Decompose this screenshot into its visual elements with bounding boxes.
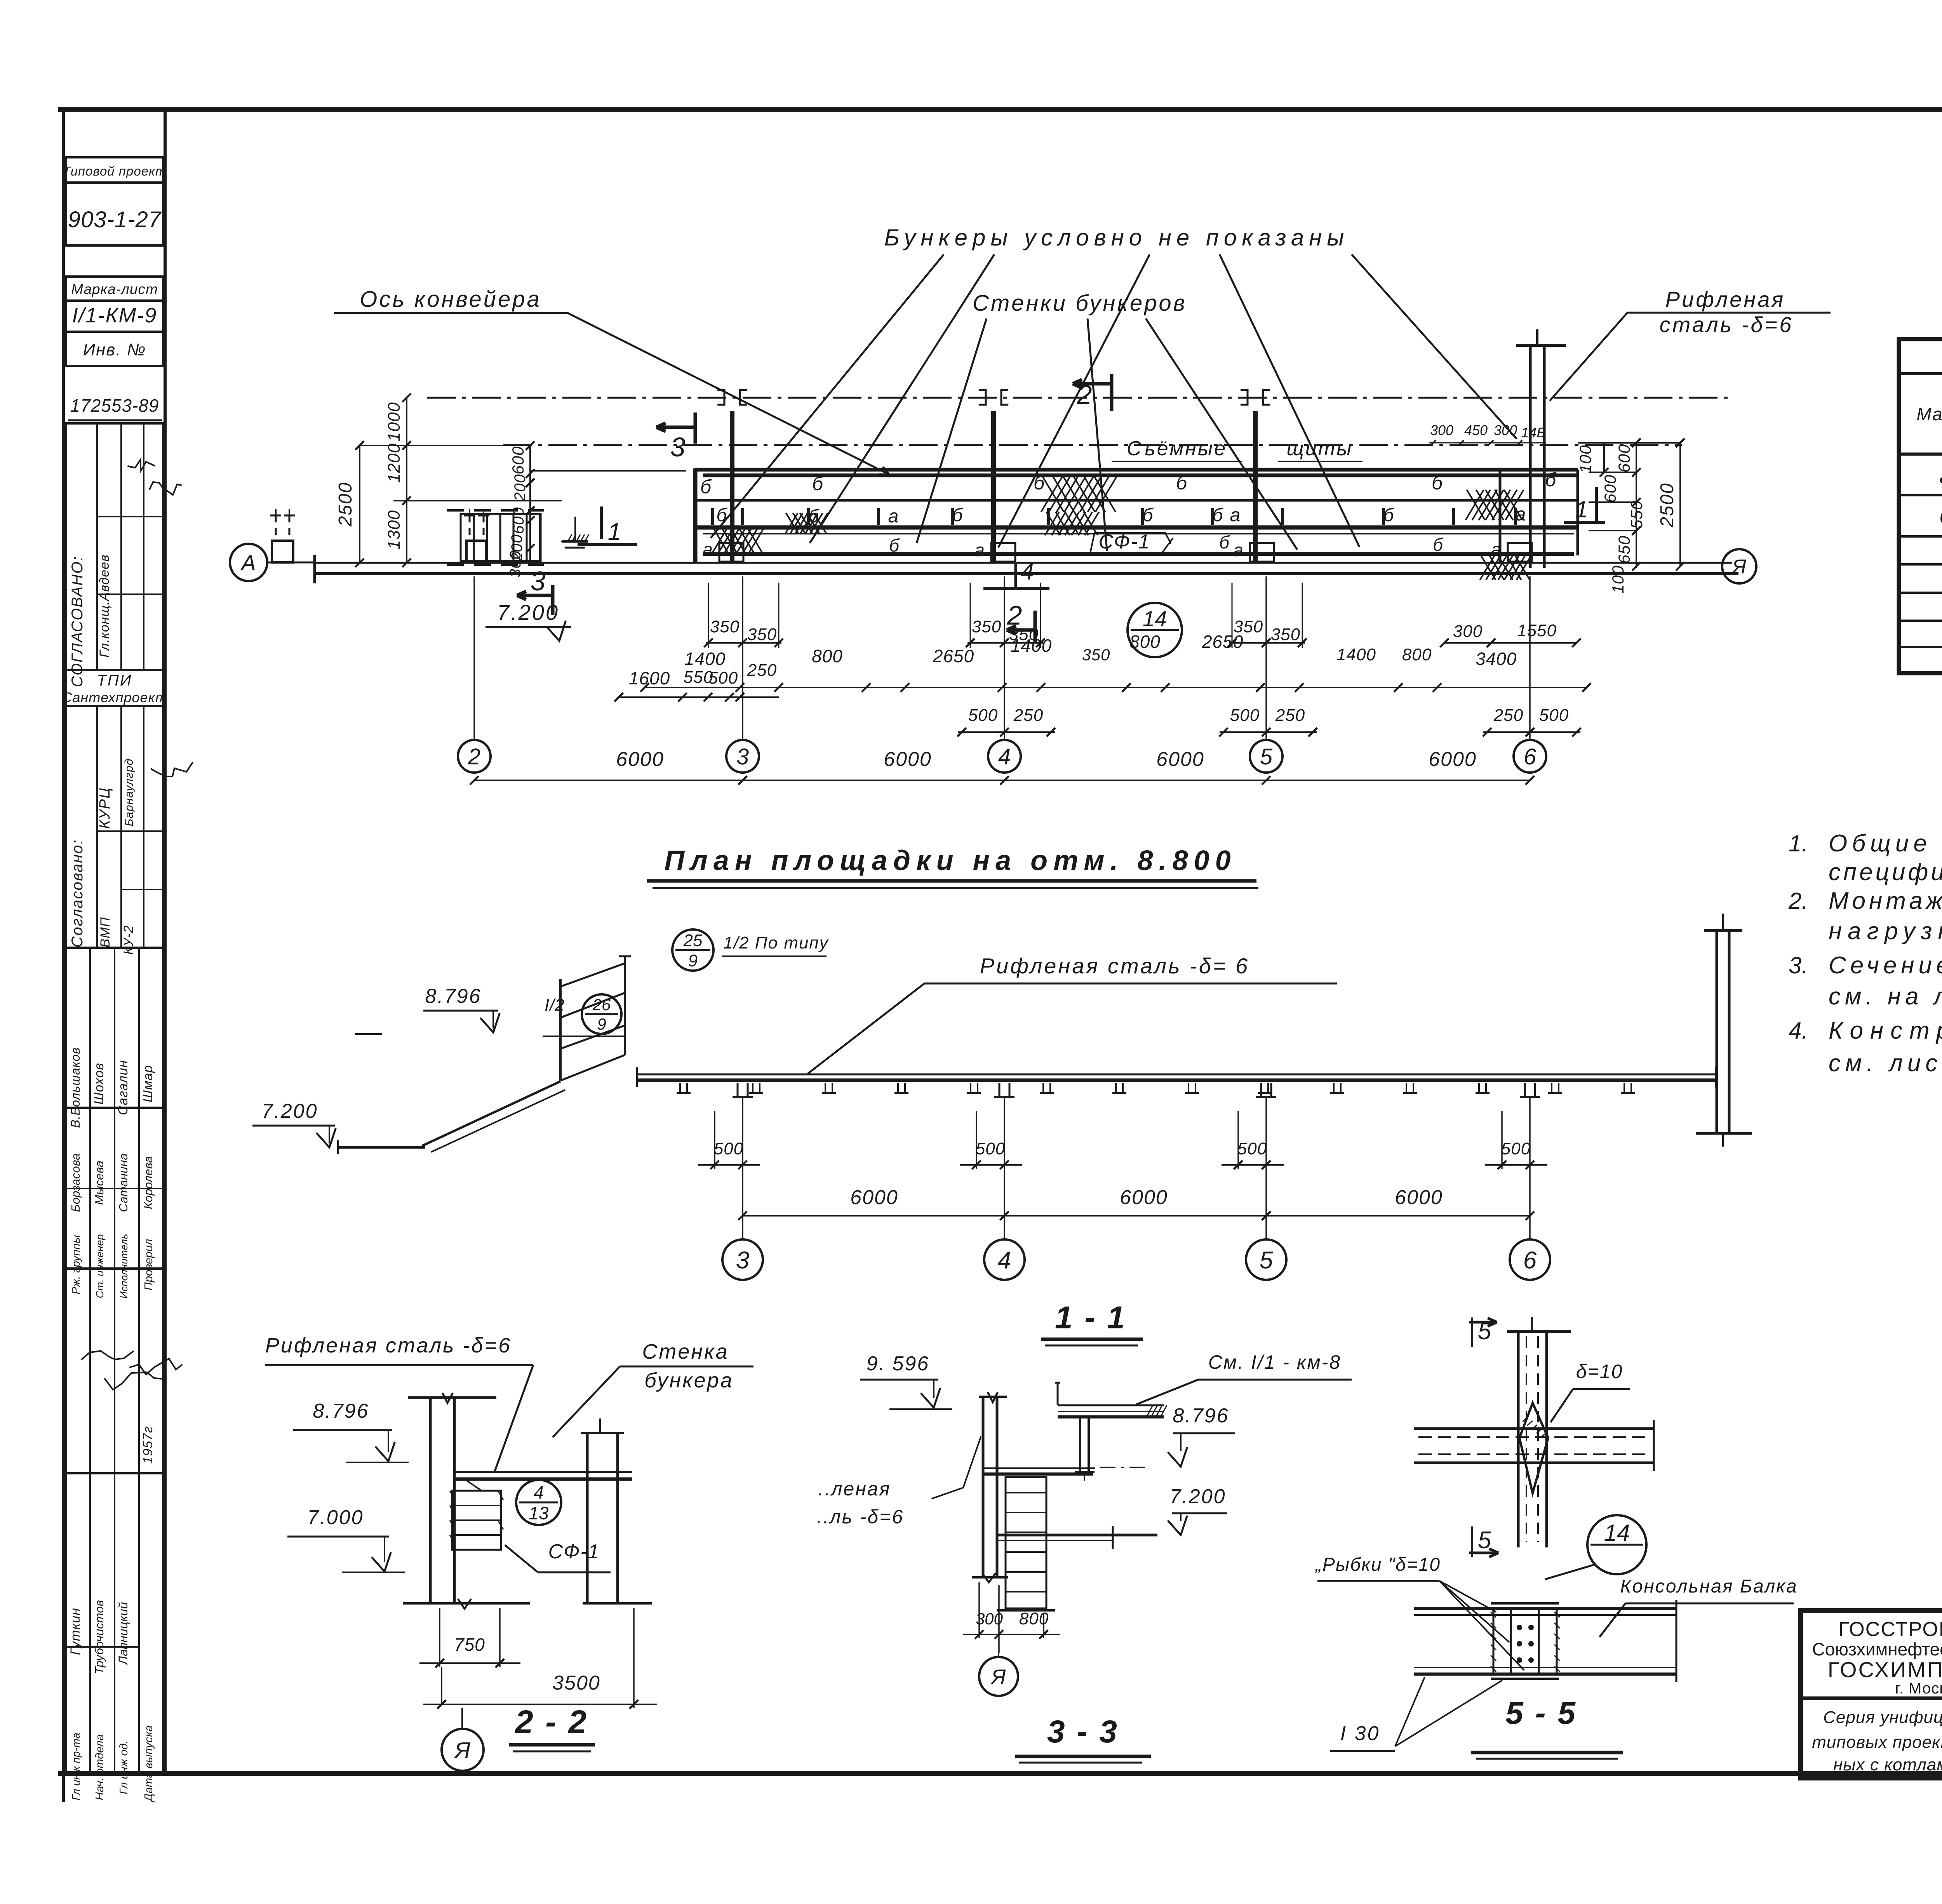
- grid drop lines (elevation) + 500 dims: [742, 1098, 743, 1239]
- axis bubble Я (right): [1722, 549, 1756, 583]
- ground anchor symbol: [562, 540, 587, 543]
- svg-text:903-1-27: 903-1-27: [68, 207, 162, 232]
- right end tall column: [1529, 345, 1532, 568]
- svg-text:1/2 По типу: 1/2 По типу: [723, 933, 829, 952]
- б/а labels row2 with ticks: [711, 508, 714, 525]
- 14 circle: [1587, 1515, 1646, 1574]
- svg-text:а: а: [1230, 505, 1241, 526]
- svg-text:4: 4: [998, 744, 1011, 769]
- svg-text:б: б: [1383, 505, 1395, 526]
- svg-text:сталь -δ=6: сталь -δ=6: [1660, 312, 1794, 337]
- svg-text:500: 500: [1539, 706, 1569, 725]
- svg-text:14Б: 14Б: [1521, 425, 1545, 440]
- svg-text:1400: 1400: [1011, 635, 1052, 656]
- svg-text:9: 9: [597, 1015, 606, 1033]
- deck support stubs: [679, 1083, 681, 1092]
- svg-text:300: 300: [507, 550, 524, 578]
- svg-text:Мысева: Мысева: [92, 1161, 106, 1205]
- svg-text:а: а: [1516, 504, 1526, 525]
- cross detail: column: [1517, 1331, 1520, 1547]
- stamp: bottom names block: [66, 1473, 163, 1773]
- svg-text:100: 100: [1609, 565, 1627, 593]
- axis bubble А: [230, 544, 267, 581]
- svg-text:Ст. инженер: Ст. инженер: [94, 1234, 106, 1298]
- detail 2-2: 4/13 circle: [516, 1480, 561, 1525]
- svg-text:2650: 2650: [933, 646, 974, 666]
- stamp: Инв №: [66, 332, 163, 366]
- platform band: bottom edge: [703, 552, 1574, 556]
- svg-text:б: б: [889, 535, 900, 555]
- svg-text:9. 596: 9. 596: [867, 1352, 930, 1375]
- svg-text:550: 550: [1627, 500, 1646, 529]
- svg-text:Съёмные: Съёмные: [1127, 437, 1227, 460]
- svg-text:3: 3: [670, 432, 686, 462]
- stamp: Типовой проект: [66, 157, 163, 183]
- svg-text:Проверил: Проверил: [143, 1239, 155, 1291]
- detail 1-1: hanging post: [1079, 1417, 1081, 1471]
- svg-text:б: б: [700, 476, 712, 498]
- svg-text:300: 300: [1494, 422, 1517, 438]
- svg-text:Серия унифицированных: Серия унифицированных: [1823, 1708, 1942, 1727]
- svg-text:Лапницкий: Лапницкий: [116, 1602, 130, 1666]
- stamp: Марка-лист: [66, 277, 163, 301]
- svg-text:1400: 1400: [684, 649, 726, 669]
- svg-text:Я: Я: [990, 1665, 1006, 1688]
- svg-text:1957г: 1957г: [141, 1426, 155, 1464]
- svg-text:Рифленая сталь -δ=6: Рифленая сталь -δ=6: [265, 1334, 512, 1357]
- svg-text:800: 800: [1019, 1609, 1049, 1628]
- stair landing 7.200: [338, 1146, 425, 1149]
- svg-text:600: 600: [509, 446, 527, 474]
- svg-text:спецификацию стали см. на: спецификацию стали см. на листе I/1 -км-…: [1829, 859, 1942, 886]
- detail 3-3: bubble Я: [998, 1653, 999, 1658]
- svg-text:ВМП: ВМП: [98, 917, 113, 948]
- detail 2-2: СФ-1 brace box: [452, 1491, 501, 1550]
- svg-text:Конструкцию площадки на: Конструкцию площадки на отм. 9.600: [1829, 1017, 1942, 1044]
- svg-text:1400: 1400: [1336, 645, 1376, 664]
- svg-text:3400: 3400: [1476, 649, 1517, 669]
- column posts at grids: [730, 411, 734, 563]
- svg-text:2650: 2650: [1202, 632, 1243, 652]
- stamp: ТПИ / Сантехпроект: [66, 670, 163, 706]
- svg-text:Сечение 4 - 4 и конструк: Сечение 4 - 4 и конструкцию связи СФ-1: [1829, 952, 1942, 979]
- svg-text:СОГЛАСОВАНО:: СОГЛАСОВАНО:: [69, 556, 86, 687]
- svg-text:300: 300: [1430, 422, 1453, 438]
- section mark 3 top: [656, 426, 695, 429]
- detail 2-2: dim 3500: [633, 1608, 635, 1708]
- svg-text:14: 14: [1143, 606, 1167, 631]
- svg-text:Сатанина: Сатанина: [117, 1153, 130, 1212]
- svg-text:1: 1: [608, 519, 621, 545]
- svg-text:б: б: [1433, 534, 1444, 555]
- svg-text:ГОСХИМПРОЕКТ: ГОСХИМПРОЕКТ: [1828, 1657, 1942, 1682]
- svg-text:I 30: I 30: [1340, 1722, 1380, 1745]
- svg-text:3.: 3.: [1789, 952, 1808, 978]
- svg-text:б: б: [1213, 505, 1224, 526]
- svg-text:..ль -δ=6: ..ль -δ=6: [817, 1506, 904, 1528]
- svg-text:Бункеры условно не показаны: Бункеры условно не показаны: [884, 225, 1349, 251]
- svg-text:1000: 1000: [385, 402, 404, 442]
- svg-text:650: 650: [1615, 535, 1633, 564]
- svg-text:Я: Я: [1731, 556, 1746, 578]
- svg-text:типовых проектов котель-: типовых проектов котель-: [1812, 1733, 1942, 1752]
- svg-text:Трубочистов: Трубочистов: [92, 1600, 106, 1674]
- section mark 3 bottom: [517, 594, 553, 597]
- dim chain 1400/800/2650: [645, 687, 1587, 688]
- svg-text:3500: 3500: [552, 1672, 600, 1694]
- svg-text:См. I/1 - км-8: См. I/1 - км-8: [1208, 1351, 1342, 1373]
- svg-text:800: 800: [1129, 632, 1161, 652]
- svg-text:800: 800: [1402, 645, 1432, 664]
- platform deck (elevation): [637, 1074, 1716, 1076]
- svg-text:350: 350: [1082, 646, 1110, 664]
- svg-text:500: 500: [714, 1139, 743, 1158]
- svg-text:А: А: [240, 550, 256, 575]
- svg-text:500: 500: [708, 668, 738, 687]
- svg-text:300: 300: [1453, 622, 1483, 641]
- stamp: I/1-КМ-9: [66, 301, 163, 332]
- svg-text:СФ-1: СФ-1: [1098, 531, 1150, 553]
- svg-text:I/1-КМ-9: I/1-КМ-9: [72, 304, 157, 327]
- svg-text:800: 800: [812, 646, 843, 666]
- svg-text:500: 500: [1230, 706, 1260, 725]
- svg-text:6000: 6000: [1120, 1186, 1168, 1209]
- svg-text:„Рыбки "δ=10: „Рыбки "δ=10: [1315, 1554, 1441, 1575]
- grid2 column square: [466, 541, 486, 562]
- svg-text:9: 9: [688, 951, 698, 970]
- svg-text:6000: 6000: [1429, 748, 1477, 771]
- ladder / grate: [461, 514, 541, 561]
- right end column (elevation): [1716, 930, 1718, 1133]
- svg-text:500: 500: [968, 706, 998, 725]
- svg-text:4: 4: [534, 1482, 544, 1502]
- grid bubbles (elevation): [722, 1239, 763, 1280]
- svg-text:бункера: бункера: [644, 1369, 734, 1392]
- svg-text:2.: 2.: [1788, 888, 1808, 914]
- axis A line: [315, 562, 1732, 564]
- svg-text:..леная: ..леная: [818, 1478, 891, 1500]
- svg-text:Исполнитель: Исполнитель: [118, 1234, 130, 1299]
- splice plates: [1493, 1608, 1495, 1674]
- svg-text:250: 250: [747, 661, 777, 680]
- detail 3-3: lower beam 7.200: [997, 1534, 1157, 1537]
- svg-text:см. на листе I/1. - км -: см. на листе I/1. - км - 15.: [1829, 983, 1942, 1010]
- svg-text:8.796: 8.796: [313, 1400, 369, 1422]
- svg-text:Гл инж од.: Гл инж од.: [118, 1740, 130, 1794]
- svg-text:Консольная Балка: Консольная Балка: [1620, 1576, 1798, 1597]
- svg-text:I/2: I/2: [545, 996, 565, 1015]
- svg-text:6000: 6000: [1395, 1186, 1443, 1209]
- svg-text:2 - 2: 2 - 2: [514, 1704, 588, 1740]
- sheet outer frame: [58, 107, 1942, 112]
- svg-text:350: 350: [747, 625, 777, 644]
- dim chain 1600/550/500/250: [619, 696, 779, 698]
- svg-text:600: 600: [510, 507, 527, 534]
- svg-text:План площадки на отм.: План площадки на отм. 8.800: [664, 845, 1236, 876]
- svg-text:б: б: [1939, 506, 1942, 528]
- svg-text:Борзасова: Борзасова: [69, 1153, 82, 1212]
- section mark 2 top: [1073, 382, 1112, 386]
- svg-text:7.200: 7.200: [497, 600, 559, 625]
- svg-text:1200: 1200: [385, 443, 404, 483]
- detail 2-2: bubble Я: [461, 1708, 463, 1728]
- svg-text:500: 500: [1501, 1139, 1531, 1158]
- svg-text:б: б: [1432, 472, 1443, 494]
- svg-text:1600: 1600: [629, 668, 670, 688]
- platform band: top double beam б: [695, 468, 1578, 472]
- svg-text:Стенка: Стенка: [642, 1340, 729, 1363]
- svg-text:Дата выпуска: Дата выпуска: [143, 1725, 155, 1803]
- svg-text:14: 14: [1604, 1520, 1630, 1546]
- leader lines from стенки label: [917, 318, 987, 543]
- svg-text:350: 350: [972, 617, 1001, 636]
- cross detail: fish plate diamond: [1519, 1403, 1548, 1493]
- svg-text:г. Москва: г. Москва: [1895, 1680, 1942, 1697]
- svg-text:2500: 2500: [335, 482, 356, 527]
- svg-text:3: 3: [531, 566, 546, 596]
- grid drop lines and bubbles (plan): [473, 576, 475, 740]
- svg-text:Гуткин: Гуткин: [68, 1608, 83, 1655]
- dim 6000 row (elevation): [743, 1215, 1530, 1217]
- right platform edge: [1499, 470, 1502, 563]
- svg-text:Гл инж пр-та: Гл инж пр-та: [70, 1733, 82, 1800]
- svg-text:б: б: [1176, 472, 1188, 494]
- detail 2-2: dim 750: [439, 1608, 440, 1667]
- svg-text:б: б: [717, 505, 728, 526]
- svg-text:600: 600: [1601, 474, 1619, 503]
- 14 circle in plan: [1128, 603, 1182, 657]
- svg-text:4.: 4.: [1789, 1018, 1808, 1044]
- svg-text:1.: 1.: [1789, 830, 1808, 856]
- svg-text:Типовой проект: Типовой проект: [63, 164, 167, 178]
- svg-text:Марка-лист: Марка-лист: [71, 281, 158, 297]
- detail 3-3: bunker wall box: [1006, 1477, 1046, 1608]
- svg-text:б: б: [952, 505, 964, 526]
- detail 2-2: base lines: [403, 1602, 530, 1605]
- svg-text:250: 250: [1493, 706, 1523, 725]
- stamp: signatures block: [66, 948, 163, 1108]
- lone column square left: [272, 541, 293, 562]
- svg-text:1: 1: [1575, 496, 1588, 522]
- svg-text:щиты: щиты: [1287, 437, 1353, 460]
- svg-text:1550: 1550: [1517, 621, 1557, 640]
- detail 2-2: bunker wall column: [581, 1432, 624, 1434]
- svg-text:7.000: 7.000: [307, 1506, 364, 1529]
- svg-text:1 - 1: 1 - 1: [1055, 1300, 1126, 1335]
- svg-text:ГОССТРОЙ СССР: ГОССТРОЙ СССР: [1838, 1618, 1942, 1641]
- detail circle 25/9: [672, 929, 713, 971]
- svg-text:5 - 5: 5 - 5: [1505, 1695, 1577, 1731]
- svg-text:Инв. №: Инв. №: [83, 340, 146, 359]
- svg-text:КУ-2: КУ-2: [121, 925, 136, 955]
- svg-text:3 - 3: 3 - 3: [1047, 1714, 1119, 1749]
- svg-text:7.200: 7.200: [261, 1100, 318, 1123]
- railing: [624, 956, 626, 1055]
- svg-text:Рифленая: Рифленая: [1665, 287, 1785, 312]
- svg-text:2: 2: [1077, 379, 1092, 410]
- svg-text:250: 250: [1013, 706, 1043, 725]
- svg-text:а: а: [703, 539, 713, 559]
- svg-text:6: 6: [1524, 744, 1537, 769]
- svg-text:Я: Я: [454, 1738, 470, 1763]
- svg-text:450: 450: [1464, 422, 1488, 438]
- svg-text:Общие примечания и техн: Общие примечания и техническую: [1829, 830, 1942, 857]
- svg-text:см. лист I /1 - км - 8: см. лист I /1 - км - 8: [1829, 1050, 1942, 1077]
- svg-text:Барнаулгрд: Барнаулгрд: [123, 759, 136, 827]
- svg-text:Сантехпроект: Сантехпроект: [62, 689, 167, 705]
- svg-text:Стенки бункеров: Стенки бункеров: [973, 291, 1187, 316]
- detail 1-1: cantilever deck: [1058, 1405, 1164, 1406]
- svg-text:7.200: 7.200: [1169, 1485, 1226, 1508]
- detail 2-2: deck: [454, 1471, 632, 1473]
- svg-text:5: 5: [1260, 1247, 1273, 1274]
- svg-text:3: 3: [736, 744, 749, 769]
- svg-text:25: 25: [683, 931, 703, 950]
- svg-text:13: 13: [529, 1503, 549, 1523]
- svg-text:1300: 1300: [385, 510, 404, 550]
- svg-text:5: 5: [1260, 744, 1273, 769]
- svg-text:б: б: [1034, 472, 1045, 494]
- svg-text:350: 350: [1271, 625, 1300, 644]
- svg-text:6000: 6000: [850, 1186, 898, 1209]
- title block: [1801, 1610, 1942, 1778]
- svg-text:750: 750: [454, 1634, 485, 1655]
- svg-text:б: б: [1143, 505, 1154, 526]
- svg-text:δ=10: δ=10: [1576, 1361, 1623, 1382]
- svg-text:Монтажная равномерно - рас: Монтажная равномерно - распределительная…: [1829, 888, 1942, 914]
- svg-text:б: б: [1219, 532, 1230, 552]
- dim 500/250 pairs: [958, 731, 1055, 733]
- svg-text:а: а: [1233, 540, 1243, 560]
- platform band: main girder: [695, 526, 1578, 530]
- svg-text:4: 4: [1021, 559, 1034, 585]
- stair stringer: [422, 1081, 560, 1146]
- svg-text:Гл.конщ.Авдеев: Гл.конщ.Авдеев: [97, 554, 112, 658]
- 5-5 beam splice: [1414, 1607, 1676, 1610]
- svg-text:ТПИ: ТПИ: [97, 672, 132, 689]
- svg-text:6000: 6000: [616, 748, 664, 771]
- lower a-boxes: [719, 543, 743, 562]
- hatch patches: [713, 529, 727, 552]
- section mark 2 bottom: [1007, 628, 1035, 632]
- svg-text:3: 3: [736, 1247, 749, 1274]
- dash-dot line top: [427, 397, 1733, 399]
- left dim stack: [359, 446, 360, 563]
- svg-text:Королева: Королева: [141, 1156, 155, 1210]
- stamp: согласовано block 1: [66, 423, 163, 670]
- svg-text:а: а: [974, 540, 985, 560]
- dash-dot line conveyor: [503, 444, 1682, 446]
- svg-text:СФ-1: СФ-1: [548, 1540, 600, 1563]
- leader lines from bunker label: [711, 254, 944, 538]
- stamp: 903-1-27: [66, 183, 163, 245]
- svg-text:Согласовано:: Согласовано:: [69, 839, 86, 947]
- detail 3-3: main column: [979, 1396, 1007, 1398]
- dim chain 6000 row: [474, 780, 1530, 781]
- svg-text:2: 2: [468, 744, 480, 769]
- svg-text:Ось конвейера: Ось конвейера: [360, 287, 541, 312]
- svg-text:В.Большаков: В.Большаков: [68, 1047, 82, 1128]
- svg-text:а: а: [1940, 465, 1942, 488]
- svg-text:4: 4: [998, 1247, 1011, 1274]
- svg-text:КУРЦ: КУРЦ: [97, 787, 113, 829]
- svg-text:500: 500: [976, 1139, 1005, 1158]
- svg-text:Союзхимнефтестройпроект: Союзхимнефтестройпроект: [1812, 1639, 1942, 1659]
- stamp: согласовано block 2: [66, 706, 163, 948]
- svg-text:ных с котлами ДКВР: ных с котлами ДКВР: [1833, 1755, 1942, 1774]
- svg-text:Шмар: Шмар: [141, 1065, 155, 1102]
- svg-text:200: 200: [512, 474, 529, 501]
- detail 2-2: main column: [408, 1396, 496, 1399]
- svg-text:Нач. отдела: Нач. отдела: [94, 1734, 106, 1800]
- svg-text:6000: 6000: [1156, 748, 1204, 771]
- platform band: mid beam: [695, 499, 1578, 502]
- svg-text:Марка: Марка: [1916, 404, 1942, 424]
- svg-text:нагрузка на площадку рав: нагрузка на площадку равна 300 кг/м²: [1829, 918, 1942, 945]
- svg-text:500: 500: [1237, 1139, 1267, 1158]
- svg-text:300: 300: [976, 1610, 1003, 1628]
- stamp: roles block: [66, 1108, 163, 1269]
- stamp: signatures block 2: [66, 1269, 163, 1473]
- svg-text:100: 100: [1576, 445, 1594, 473]
- cross detail: beam: [1414, 1427, 1654, 1430]
- svg-text:6000: 6000: [884, 748, 932, 771]
- platform left edge column: [693, 468, 698, 563]
- svg-text:172553-89: 172553-89: [70, 395, 159, 416]
- svg-text:350: 350: [710, 617, 740, 636]
- svg-text:Рифленая сталь -δ= 6: Рифленая сталь -δ= 6: [980, 954, 1250, 978]
- detail 3-3: deck: [983, 1467, 1095, 1469]
- svg-text:250: 250: [1275, 706, 1305, 725]
- svg-text:Рж. группы: Рж. группы: [70, 1235, 82, 1295]
- svg-text:б: б: [812, 473, 824, 494]
- detail 3-3: dims 300 800: [978, 1582, 980, 1638]
- section table Таблица сечений: [1899, 339, 1942, 673]
- right dim stack: [1578, 442, 1680, 444]
- svg-text:8.796: 8.796: [425, 985, 481, 1008]
- svg-text:600: 600: [1615, 444, 1633, 472]
- svg-text:б: б: [1545, 469, 1557, 491]
- svg-text:6: 6: [1523, 1247, 1537, 1274]
- svg-text:Шохов: Шохов: [92, 1063, 106, 1105]
- svg-text:2500: 2500: [1657, 483, 1677, 528]
- dim chain 350/350 at grids: [706, 642, 781, 644]
- svg-text:8.796: 8.796: [1173, 1405, 1229, 1427]
- svg-text:а: а: [888, 506, 899, 527]
